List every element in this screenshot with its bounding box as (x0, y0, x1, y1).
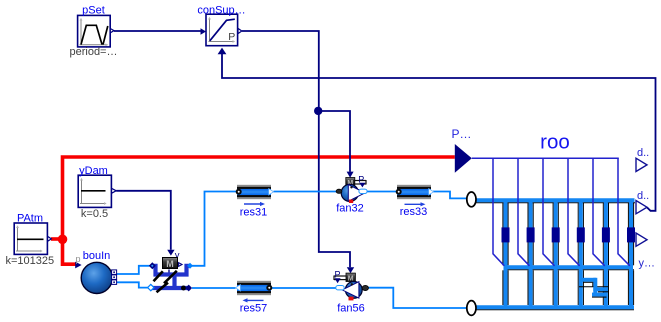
svg-text:P…: P… (452, 127, 472, 141)
svg-text:bouIn: bouIn (83, 250, 111, 262)
damper bottom to res57 (192, 287, 236, 289)
res33 (396, 185, 434, 218)
fan56 (mirrored fan with M actuator and P sensor) (334, 270, 368, 315)
block pSet (pulse source) (69, 5, 117, 59)
arrowhead into fan32 M (347, 172, 354, 178)
svg-text:period=…: period=… (69, 46, 117, 58)
svg-text:pSet: pSet (82, 5, 105, 17)
res33 to roo top port (433, 192, 467, 199)
svg-text:res31: res31 (240, 207, 268, 219)
res31 (fixed resistance pipe) (236, 185, 274, 219)
fan32 to res33 (367, 191, 398, 193)
svg-text:k=0.5: k=0.5 (81, 208, 108, 220)
svg-text:y…: y… (639, 258, 656, 270)
block PAtm (fixed pressure) (5, 213, 54, 268)
roo bottom fluid port (ellipse) (467, 301, 476, 316)
svg-text:fan32: fan32 (336, 203, 364, 215)
stair connector between verticals 4 and 5 (579, 278, 608, 297)
VAV damper assembly with M actuator (148, 258, 193, 293)
block yDam (constant 0.5) (78, 165, 116, 220)
red junction dot (58, 235, 68, 245)
svg-text:p: p (76, 254, 81, 264)
svg-text:conSup…: conSup… (197, 5, 245, 17)
room cell black borders row1 (476, 203, 635, 310)
bouIn to damper top (117, 266, 150, 274)
arrowhead into fan56 M (347, 267, 354, 273)
wire yDam to damper actuator (116, 191, 171, 250)
res57 (reverse flow) (236, 281, 273, 315)
block conSup (P controller) (197, 5, 245, 46)
wire feedback from roo d.. port to conSup bottom (222, 54, 656, 211)
res57 to fan56 (271, 287, 336, 289)
fan32 (exhaust fan with M actuator and P sensor) (336, 174, 367, 214)
svg-text:d..: d.. (637, 147, 649, 159)
roo duct network (thick blue ducts with black room borders) (476, 199, 635, 310)
svg-text:roo: roo (540, 131, 570, 154)
roo top fluid port (ellipse) (467, 192, 476, 207)
svg-text:P: P (334, 270, 340, 280)
damper out up to res31 (192, 192, 237, 266)
svg-text:yDam: yDam (79, 165, 108, 177)
arrowhead into conSup bottom (218, 48, 227, 55)
thick blue ducts (476, 199, 635, 308)
svg-text:d..: d.. (637, 190, 649, 202)
fan56 to roo bottom port (368, 288, 466, 308)
wire junction to fan32 (319, 111, 350, 172)
bouIn to damper bottom (117, 282, 149, 287)
svg-text:PAtm: PAtm (17, 213, 43, 225)
wire pSet to conSup (114, 30, 201, 32)
wire conSup out down to fan56 (242, 31, 350, 267)
roo P input port (filled triangle) (452, 127, 472, 173)
arrowhead into vav damper M (167, 250, 174, 256)
svg-text:k=101325: k=101325 (5, 255, 54, 267)
svg-text:res33: res33 (400, 206, 428, 218)
roo right output ports (636, 147, 655, 270)
light blue fluid wires (117, 192, 467, 309)
junction dot (314, 107, 322, 115)
svg-text:P: P (228, 31, 235, 43)
bouIn boundary (blue sphere) (81, 250, 116, 294)
navy control wires (114, 31, 656, 267)
svg-text:fan56: fan56 (337, 303, 365, 315)
red wire PAtm pressure distribution (51, 157, 455, 264)
navy arrow into bouIn (75, 262, 81, 269)
roo control signal distribution (thin blue lines from P input) (472, 158, 630, 265)
VAV dampers (navy rectangles) (502, 227, 636, 242)
res31 to fan32 (274, 191, 337, 193)
svg-text:M: M (166, 259, 174, 269)
svg-text:res57: res57 (240, 303, 268, 315)
